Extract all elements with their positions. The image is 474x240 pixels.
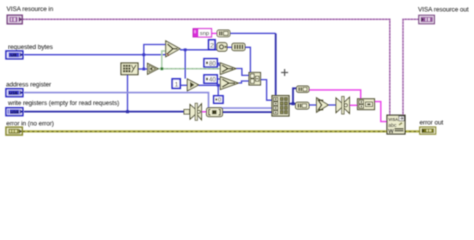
svg-text:requested bytes: requested bytes <box>8 44 53 51</box>
wire swap bytes to concatenate (string) <box>350 104 358 106</box>
svg-text:W: W <box>388 129 394 135</box>
node type cast <box>207 108 223 117</box>
wire increment output to select2 lower input <box>199 84 220 86</box>
wire branch up to select input <box>144 45 166 70</box>
wire sum to swap bytes <box>328 104 335 106</box>
constant 2 <box>209 40 215 50</box>
wire down into big build array <box>275 33 277 95</box>
wire +40 constant to select2 <box>217 78 221 80</box>
wire hex-string node C to node D <box>227 46 232 48</box>
wire big build array output <box>289 103 296 105</box>
node junction on select output <box>184 48 187 51</box>
svg-text:80: 80 <box>209 61 216 67</box>
svg-text:VISA resource out: VISA resource out <box>418 7 469 14</box>
node hex digits pill <box>232 43 245 50</box>
node string length <box>217 30 230 37</box>
wire requested bytes <box>24 54 166 56</box>
wire branch down to increment <box>184 50 186 79</box>
wire error cluster: VISA Write to error out <box>404 130 420 132</box>
node empty array? comparison <box>148 63 159 74</box>
node select 1 (top) <box>166 41 180 57</box>
svg-text:1: 1 <box>175 81 179 88</box>
string constant snp <box>193 29 212 38</box>
node concatenate strings <box>358 99 375 110</box>
wire select1 output into build array <box>236 69 249 76</box>
svg-text:U16: U16 <box>10 110 19 115</box>
node junction on write registers wire <box>126 110 129 113</box>
wire constant 1 to increment <box>181 84 188 86</box>
svg-text:address register: address register <box>6 82 52 89</box>
wire +80 constant to select1 <box>217 63 221 65</box>
wire array size input tap <box>127 75 129 112</box>
node junction <box>217 84 220 87</box>
wire select2 output into build array <box>239 81 250 83</box>
node junction on requested bytes <box>142 53 145 56</box>
constant +40 <box>204 75 217 84</box>
wire +0 constant up link <box>217 85 219 96</box>
wire node B to sum <box>309 104 317 106</box>
svg-text:U16: U16 <box>9 91 18 96</box>
svg-text:VISA resource in: VISA resource in <box>7 6 54 13</box>
node build array small <box>249 73 261 86</box>
node select 3 <box>220 77 238 90</box>
constant +0 <box>214 96 223 104</box>
node swap bytes (bowtie) <box>336 97 350 115</box>
node increment <box>187 79 198 91</box>
node junction <box>292 102 295 105</box>
wire write registers (thick navy array wire) <box>24 111 185 113</box>
node number to hex string <box>217 43 227 52</box>
wire error cluster: error in to VISA Write <box>23 130 389 132</box>
wire VISA resource out: from VISA Write up and right to terminal <box>403 19 419 115</box>
wire select output to hex-string row <box>180 49 217 51</box>
node swap bytes 1 (bowtie on write path) <box>184 103 202 120</box>
wire node D down to small build array <box>245 47 250 72</box>
constant 1 <box>172 79 180 89</box>
svg-text:VISA: VISA <box>388 117 398 122</box>
wire string constant to string length <box>212 32 218 34</box>
wire small build array output down to big build array <box>261 80 273 101</box>
svg-text:40: 40 <box>209 78 216 84</box>
svg-text:error in (no error): error in (no error) <box>6 120 54 127</box>
node string/number converter B <box>296 102 310 109</box>
node build array big <box>272 96 289 116</box>
svg-text:U8: U8 <box>10 53 16 59</box>
svg-text:error out: error out <box>420 120 444 127</box>
terminal write registers (U16 array) <box>6 108 23 116</box>
wire concatenate output to VISA Write input <box>375 102 387 122</box>
wire string length output across top <box>230 32 276 34</box>
wire swap bytes 1 output (string) to type cast <box>202 111 207 113</box>
wire address register (periwinkle U16) <box>24 93 272 109</box>
constant +80 <box>204 59 217 68</box>
node select 2 <box>220 63 236 75</box>
node VISA Write <box>387 115 405 135</box>
terminal VISA resource in <box>7 15 22 24</box>
wire string from node A to concatenate <box>309 90 361 99</box>
terminal error in <box>6 127 22 135</box>
node array size <box>121 63 138 75</box>
svg-text:2: 2 <box>210 42 214 49</box>
node junction at compare row <box>142 68 145 71</box>
svg-text:write registers (empty for rea: write registers (empty for read requests… <box>7 100 119 107</box>
wire array size output <box>139 68 148 70</box>
terminal address register (U16) <box>6 89 23 97</box>
terminal requested bytes (U8) <box>6 51 23 59</box>
node byte array to string A <box>297 86 310 92</box>
terminal error out <box>420 127 436 134</box>
node add array elements (sum) <box>317 98 329 112</box>
wire boolean green from empty-array compare <box>158 68 220 70</box>
terminal VISA resource out <box>419 15 435 23</box>
plus sign annotation <box>281 69 288 76</box>
wire VISA resource in: horizontal run to VISA Write <box>23 19 390 115</box>
svg-text:0: 0 <box>218 98 221 104</box>
wire branch up to byte-array-to-string <box>293 88 297 103</box>
svg-text:snp: snp <box>200 31 209 37</box>
node junction green <box>158 68 220 70</box>
wire type cast output to big build array <box>223 111 273 113</box>
